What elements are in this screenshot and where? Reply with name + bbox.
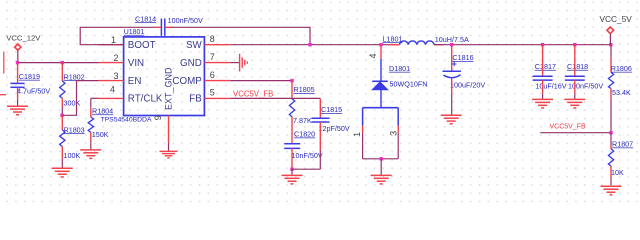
node junction VIN at C1819	[16, 61, 19, 64]
node junction COMP network bottom	[290, 168, 293, 171]
svg-text:SW: SW	[186, 40, 203, 51]
svg-text:D1801: D1801	[389, 64, 410, 73]
svg-text:10K: 10K	[611, 168, 624, 177]
wire COMP net	[230, 80, 292, 82]
svg-text:8: 8	[210, 34, 215, 44]
svg-text:10nF/50V: 10nF/50V	[292, 151, 323, 160]
ground below C1817	[532, 99, 553, 108]
svg-text:R1803: R1803	[64, 125, 85, 134]
diode package pins 1,3	[352, 108, 398, 159]
ground below diode	[371, 159, 392, 184]
pin 5 FB	[204, 88, 230, 99]
svg-text:7.87K: 7.87K	[293, 116, 312, 125]
svg-text:R1805: R1805	[294, 85, 315, 94]
pin 1 BOOT	[99, 35, 124, 45]
node junction VIN at R1802	[61, 61, 64, 64]
sheet border fragments	[0, 52, 6, 95]
wire BOOT to C1814	[80, 27, 155, 44]
svg-text:2: 2	[113, 53, 118, 63]
svg-text:VIN: VIN	[128, 58, 144, 69]
capacitor C1816	[443, 45, 486, 115]
resistor R1803	[60, 115, 85, 168]
wire EN to divider	[62, 81, 98, 116]
svg-text:4: 4	[368, 53, 378, 58]
capacitor C1819	[10, 63, 50, 106]
node junction diode ground	[380, 157, 383, 160]
wire VCC_12V port to VIN	[18, 50, 99, 62]
power port VCC_5V	[600, 14, 633, 45]
wire VCC5V_FB net	[540, 132, 611, 134]
resistor R1805	[289, 81, 314, 144]
resistor R1806	[608, 45, 631, 133]
wire SW net	[230, 44, 399, 46]
svg-text:RT/CLK: RT/CLK	[128, 94, 163, 105]
svg-text:5: 5	[210, 88, 215, 98]
svg-text:100nF/50V: 100nF/50V	[568, 82, 603, 91]
svg-text:10uH/7.5A: 10uH/7.5A	[435, 35, 469, 44]
pin 2 VIN	[99, 53, 124, 63]
node junction feedback	[609, 131, 612, 134]
svg-text:R1802: R1802	[64, 72, 85, 81]
capacitor C1815	[312, 98, 350, 169]
svg-text:10uF/16V: 10uF/16V	[535, 82, 566, 91]
ground below C1820	[282, 169, 303, 184]
svg-text:R1804: R1804	[92, 106, 113, 115]
diode D1801	[368, 45, 427, 108]
capacitor C1818	[565, 45, 604, 99]
ground below pin 9	[160, 151, 178, 158]
svg-text:U1801: U1801	[124, 29, 145, 36]
svg-text:R1806: R1806	[611, 64, 632, 73]
ground below C1816	[441, 115, 462, 124]
node junction C1818	[573, 43, 576, 46]
svg-text:9: 9	[153, 115, 163, 120]
resistor R1802	[60, 63, 85, 116]
svg-text:1: 1	[352, 132, 362, 137]
svg-text:EXT_GND: EXT_GND	[164, 67, 174, 110]
svg-text:C1819: C1819	[19, 72, 40, 81]
pin 4 RT/CLK	[99, 84, 124, 98]
svg-text:BOOT: BOOT	[128, 40, 156, 51]
svg-text:VCC_5V: VCC_5V	[600, 14, 633, 24]
svg-text:6: 6	[210, 70, 215, 80]
svg-text:1: 1	[111, 35, 116, 45]
resistor R1804	[88, 98, 113, 149]
svg-text:C1816: C1816	[452, 53, 473, 62]
ground below R1803	[52, 168, 73, 177]
svg-text:300K: 300K	[64, 98, 81, 107]
capacitor C1814 bootstrap	[135, 14, 203, 36]
svg-text:C1814: C1814	[135, 14, 156, 23]
pin 3 EN	[99, 71, 124, 81]
svg-text:100nF/50V: 100nF/50V	[168, 16, 203, 25]
svg-text:GND: GND	[180, 58, 202, 69]
svg-text:53.4K: 53.4K	[612, 88, 631, 97]
node junction EN divider	[60, 114, 63, 117]
svg-text:TPS54540BDDA: TPS54540BDDA	[101, 117, 152, 124]
svg-text:100K: 100K	[64, 151, 81, 160]
node junction COMP	[290, 79, 293, 82]
ground below R1807	[601, 186, 622, 195]
node junction SW bootstrap	[308, 43, 311, 46]
ground below R1804	[80, 150, 101, 159]
svg-text:C1817: C1817	[535, 62, 556, 71]
svg-text:VCC5V_FB: VCC5V_FB	[550, 123, 587, 130]
pin 6 COMP	[204, 70, 230, 81]
power port VCC_12V	[6, 34, 41, 51]
svg-text:L1801: L1801	[383, 34, 403, 43]
node junction C1816	[450, 43, 453, 46]
capacitor C1820	[284, 130, 323, 170]
pin 7 GND	[204, 52, 230, 63]
svg-text:COMP: COMP	[172, 76, 202, 87]
svg-text:12pF/50V: 12pF/50V	[319, 124, 350, 133]
resistor R1807	[608, 133, 633, 185]
wire VCC_5V net	[434, 44, 611, 46]
svg-text:C1815: C1815	[321, 105, 342, 114]
ground below C1818	[564, 99, 585, 108]
svg-text:VCC_12V: VCC_12V	[6, 34, 41, 43]
inductor L1801	[383, 34, 469, 44]
ground below C1819	[7, 106, 28, 115]
pin 9 EXT_GND pad	[153, 115, 169, 151]
svg-text:3: 3	[388, 131, 398, 136]
svg-text:VCC5V_FB: VCC5V_FB	[233, 89, 273, 98]
pin 8 SW	[204, 34, 230, 45]
svg-text:C1818: C1818	[567, 62, 588, 71]
svg-text:4: 4	[110, 84, 115, 94]
svg-text:FB: FB	[189, 94, 202, 105]
wire C1815 bottom to COMP ground junction	[292, 168, 320, 170]
node junction C1817	[541, 43, 544, 46]
node junction SW diode	[379, 43, 382, 46]
svg-text:4.7uF/50V: 4.7uF/50V	[17, 87, 50, 96]
svg-text:50WQ10FN: 50WQ10FN	[390, 80, 428, 89]
svg-text:EN: EN	[128, 76, 142, 87]
svg-text:100uF/20V: 100uF/20V	[450, 80, 485, 89]
svg-text:R1807: R1807	[612, 140, 633, 149]
wire FB net	[230, 97, 320, 99]
IC U1801 TPS54540 buck regulator	[101, 29, 205, 124]
node junction VCC_5V port	[609, 43, 612, 46]
svg-text:3: 3	[113, 71, 118, 81]
svg-text:7: 7	[210, 52, 215, 62]
capacitor C1817	[533, 45, 567, 99]
wire C1814 to SW net	[171, 27, 310, 44]
ground symbol at pin 7 GND	[230, 54, 247, 72]
svg-text:150K: 150K	[92, 130, 109, 139]
svg-text:C1820: C1820	[294, 130, 315, 139]
wire diode box bottom	[363, 158, 399, 160]
